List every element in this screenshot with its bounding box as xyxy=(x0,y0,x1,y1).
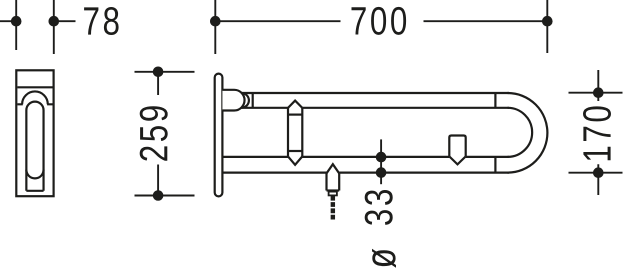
release knob collar xyxy=(329,192,337,196)
hinge joint arc xyxy=(242,93,249,108)
dimension 170 extension lines xyxy=(569,93,623,173)
clip bottom chevron xyxy=(449,156,465,164)
folded view bend outer arc xyxy=(22,91,48,104)
top tube upper line xyxy=(242,92,509,94)
dimension 700 extension line left xyxy=(214,0,216,54)
bend joint line bottom xyxy=(494,157,496,173)
dimension 259 extension lines xyxy=(135,72,195,196)
wall plate stadium xyxy=(215,74,223,197)
hinge housing outline xyxy=(222,90,244,111)
dimension 259 dot bottom xyxy=(153,190,164,201)
strut sides xyxy=(288,108,302,156)
label 700 xyxy=(352,7,407,35)
folded view band line xyxy=(17,103,52,105)
dimension dia33 dot top xyxy=(376,152,387,163)
folded view tube with round top xyxy=(26,102,43,191)
dimension 700 dot left xyxy=(210,16,221,27)
dimension 78 dot right xyxy=(49,16,60,27)
dimension 78 dot left xyxy=(11,16,22,27)
release knob cord dashed xyxy=(331,196,335,220)
dimension 170 line xyxy=(597,70,599,195)
dimension 78 extension line left xyxy=(15,0,17,50)
release knob top chevron xyxy=(327,164,340,173)
folded view tube bottom line xyxy=(26,190,43,192)
dimension 170 dot top xyxy=(593,87,604,98)
strut inner line upper xyxy=(288,113,302,115)
dimension 700 extension line right xyxy=(546,0,548,53)
label 259 xyxy=(140,106,168,161)
release knob sides xyxy=(327,173,340,190)
folded view outer rect xyxy=(16,70,53,196)
U-bend inner arc xyxy=(508,108,533,157)
dimension 259 line xyxy=(157,72,159,196)
dimension 78 line xyxy=(0,20,76,22)
strut top chevron xyxy=(288,101,302,108)
label 170 xyxy=(583,106,611,160)
bottom tube upper line xyxy=(222,156,508,158)
dimension 700 dot right xyxy=(542,16,553,27)
strut inner line lower xyxy=(288,150,302,152)
label 78 xyxy=(84,7,119,35)
dimension dia33 line xyxy=(380,139,382,184)
dimension dia33 dot bottom xyxy=(376,167,387,178)
dimension 259 dot top xyxy=(153,67,164,78)
label dia 33 symbol xyxy=(372,249,396,268)
clip fill xyxy=(449,136,465,165)
top tube lower line xyxy=(242,107,509,109)
dimension 78 extension line right xyxy=(53,0,55,54)
clip outline xyxy=(449,136,465,157)
label dia 33 value xyxy=(365,190,393,225)
release knob fill xyxy=(327,164,340,190)
folded view inner U arc xyxy=(26,170,43,179)
dimension 170 dot bottom xyxy=(593,167,604,178)
hinge collar line xyxy=(252,93,254,108)
hinge housing fill xyxy=(222,90,244,111)
folded view cap line xyxy=(17,86,52,88)
strut bottom chevron xyxy=(288,156,302,164)
dimension 700 line xyxy=(215,20,547,22)
release knob bottom line xyxy=(327,189,340,191)
U-bend outer arc xyxy=(508,93,548,173)
bottom tube lower line xyxy=(222,172,508,174)
bend joint line top xyxy=(494,93,496,108)
strut fill xyxy=(288,101,302,165)
